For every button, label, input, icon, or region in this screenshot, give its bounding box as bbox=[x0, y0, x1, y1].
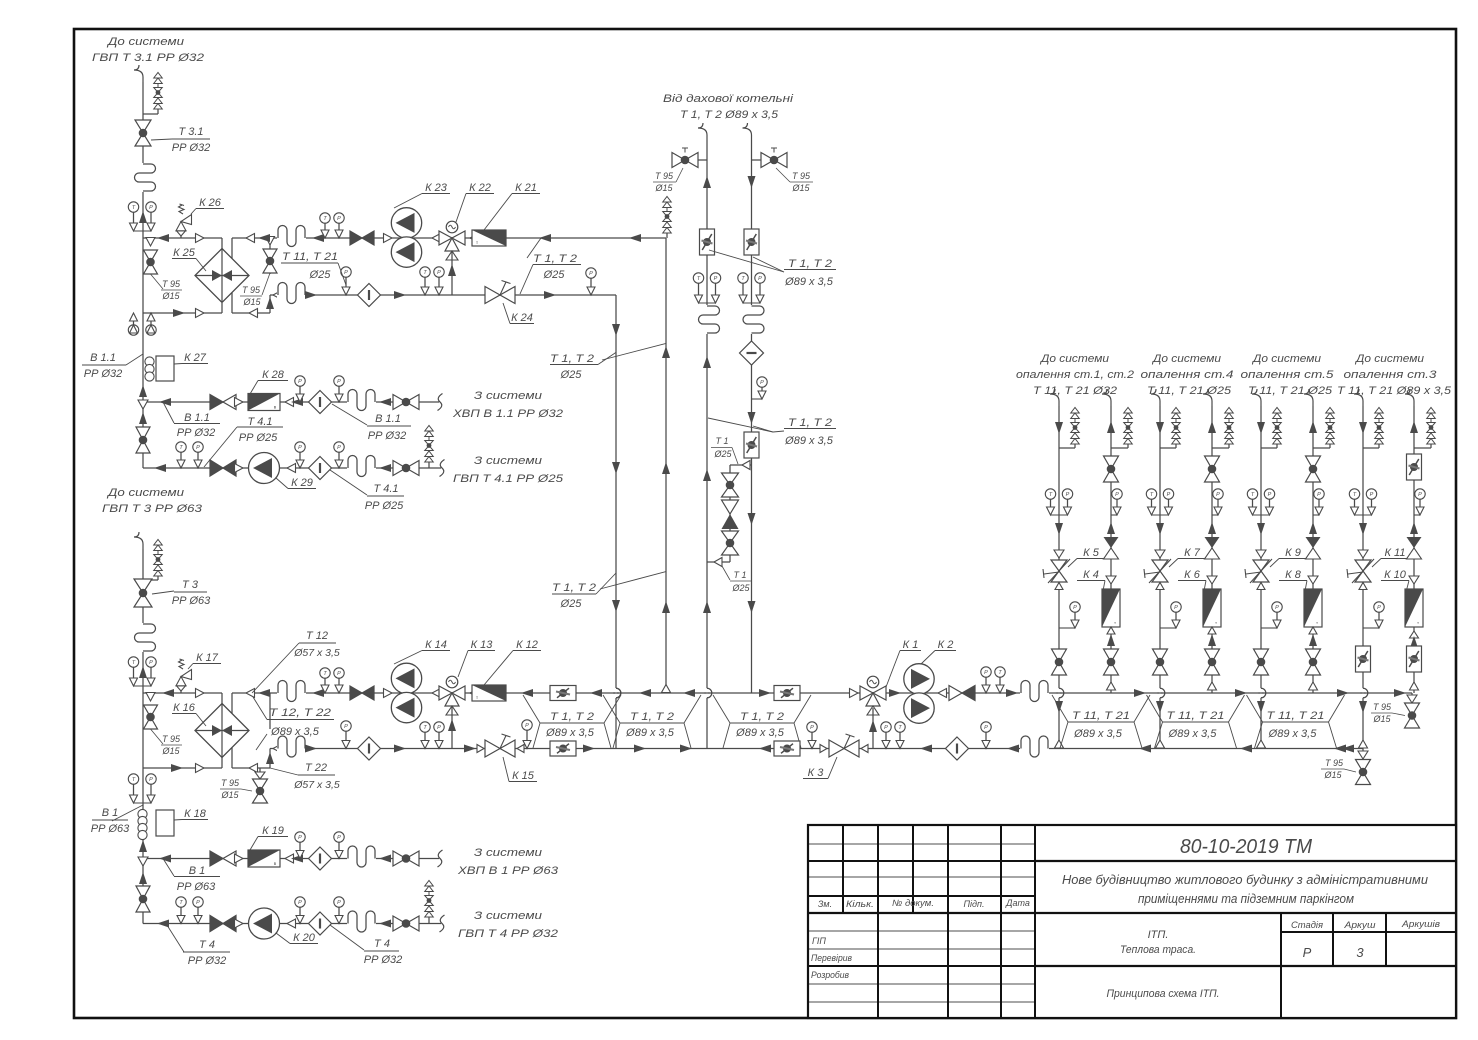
svg-text:Розробив: Розробив bbox=[811, 970, 849, 980]
svg-text:РР Ø32: РР Ø32 bbox=[172, 142, 211, 154]
svg-text:Кільк.: Кільк. bbox=[846, 899, 874, 909]
svg-text:Аркушів: Аркушів bbox=[1401, 919, 1440, 930]
svg-text:Т 11, Т 21 Ø89 х 3,5: Т 11, Т 21 Ø89 х 3,5 bbox=[1337, 385, 1452, 397]
svg-text:Р: Р bbox=[758, 276, 762, 282]
svg-text:Ø25: Ø25 bbox=[713, 449, 732, 459]
svg-text:Ø15: Ø15 bbox=[220, 790, 239, 800]
svg-text:Р: Р bbox=[984, 725, 988, 731]
svg-text:Т 95: Т 95 bbox=[221, 778, 240, 788]
svg-text:Р: Р bbox=[196, 445, 200, 451]
svg-text:Т 4.1: Т 4.1 bbox=[373, 483, 398, 495]
svg-text:В 1: В 1 bbox=[102, 807, 119, 819]
svg-text:В 1.1: В 1.1 bbox=[184, 412, 210, 424]
svg-text:ГВП Т 3 РР Ø63: ГВП Т 3 РР Ø63 bbox=[102, 503, 203, 515]
svg-text:Р: Р bbox=[810, 725, 814, 731]
svg-text:Ø15: Ø15 bbox=[1372, 714, 1391, 724]
svg-text:Р: Р bbox=[1370, 492, 1374, 498]
svg-text:Р: Р bbox=[589, 271, 593, 277]
svg-text:Ø89 х 3,5: Ø89 х 3,5 bbox=[1268, 728, 1318, 740]
svg-text:ГВП Т 3.1 РР Ø32: ГВП Т 3.1 РР Ø32 bbox=[92, 52, 204, 64]
svg-text:К 14: К 14 bbox=[425, 639, 447, 651]
svg-text:РР Ø32: РР Ø32 bbox=[364, 954, 403, 966]
svg-text:РР Ø32: РР Ø32 bbox=[188, 955, 227, 967]
svg-text:Ø15: Ø15 bbox=[161, 746, 180, 756]
svg-text:Т 11, Т 21 Ø25: Т 11, Т 21 Ø25 bbox=[1147, 385, 1232, 397]
svg-text:Т 1, Т 2: Т 1, Т 2 bbox=[552, 582, 596, 594]
svg-text:Р: Р bbox=[298, 445, 302, 451]
svg-text:Р: Р bbox=[337, 671, 341, 677]
svg-text:Ø89 х 3,5: Ø89 х 3,5 bbox=[1168, 728, 1218, 740]
svg-text:Т 95: Т 95 bbox=[1373, 702, 1392, 712]
svg-text:К 29: К 29 bbox=[291, 477, 313, 489]
svg-text:Ø25: Ø25 bbox=[560, 598, 583, 610]
svg-text:ІТП.: ІТП. bbox=[1148, 929, 1169, 941]
svg-text:Т 95: Т 95 bbox=[242, 285, 261, 295]
svg-text:В 1.1: В 1.1 bbox=[375, 413, 401, 425]
svg-text:К 18: К 18 bbox=[184, 808, 207, 820]
svg-text:Ø25: Ø25 bbox=[560, 369, 583, 381]
svg-text:Т 3.1: Т 3.1 bbox=[178, 126, 203, 138]
svg-text:РР Ø63: РР Ø63 bbox=[91, 823, 130, 835]
svg-text:№ докум.: № докум. bbox=[892, 898, 934, 908]
svg-text:Ø89 х 3,5: Ø89 х 3,5 bbox=[735, 727, 785, 739]
svg-text:Перевірив: Перевірив bbox=[811, 953, 852, 963]
svg-text:Р: Р bbox=[337, 216, 341, 222]
svg-text:РР Ø32: РР Ø32 bbox=[84, 368, 123, 380]
svg-text:К 27: К 27 bbox=[184, 352, 207, 364]
svg-text:Т 1, Т 2: Т 1, Т 2 bbox=[550, 711, 594, 723]
svg-text:К 8: К 8 bbox=[1285, 569, 1302, 581]
svg-text:Зм.: Зм. bbox=[818, 899, 832, 909]
svg-text:ХВП В 1 РР Ø63: ХВП В 1 РР Ø63 bbox=[457, 865, 559, 877]
svg-text:К 25: К 25 bbox=[173, 247, 196, 259]
svg-text:К 4: К 4 bbox=[1083, 569, 1099, 581]
svg-text:Ø15: Ø15 bbox=[791, 183, 810, 193]
svg-text:т: т bbox=[1215, 620, 1217, 625]
svg-text:К 26: К 26 bbox=[199, 197, 222, 209]
svg-text:Ø15: Ø15 bbox=[654, 183, 673, 193]
svg-text:РР Ø63: РР Ø63 bbox=[177, 881, 216, 893]
svg-text:РР Ø32: РР Ø32 bbox=[368, 430, 407, 442]
svg-text:Р: Р bbox=[1167, 492, 1171, 498]
svg-text:Ø25: Ø25 bbox=[543, 269, 566, 281]
svg-text:До системи: До системи bbox=[106, 487, 184, 499]
svg-text:РР Ø25: РР Ø25 bbox=[239, 432, 278, 444]
svg-text:Р: Р bbox=[884, 725, 888, 731]
svg-text:К 2: К 2 bbox=[938, 639, 954, 651]
svg-text:До системи: До системи bbox=[1039, 353, 1109, 365]
svg-text:Р: Р bbox=[1268, 492, 1272, 498]
svg-text:Т 4: Т 4 bbox=[374, 938, 390, 950]
svg-text:З системи: З системи bbox=[474, 910, 542, 922]
svg-text:приміщеннями та підземним парк: приміщеннями та підземним паркінгом bbox=[1138, 891, 1354, 906]
svg-text:Т 95: Т 95 bbox=[792, 171, 811, 181]
svg-text:опалення ст.5: опалення ст.5 bbox=[1241, 369, 1335, 381]
svg-text:Р: Р bbox=[1418, 492, 1422, 498]
svg-text:До системи: До системи bbox=[1151, 353, 1221, 365]
svg-text:Т 11, Т 21: Т 11, Т 21 bbox=[1267, 710, 1325, 722]
svg-text:Підп.: Підп. bbox=[964, 899, 985, 909]
svg-text:Р: Р bbox=[437, 725, 441, 731]
svg-text:Т 11, Т 21 Ø32: Т 11, Т 21 Ø32 bbox=[1033, 385, 1117, 397]
svg-text:Т 1, Т 2: Т 1, Т 2 bbox=[788, 258, 832, 270]
svg-text:Від дахової котельні: Від дахової котельні bbox=[663, 93, 794, 105]
svg-text:К 13: К 13 bbox=[471, 639, 494, 651]
svg-text:Р: Р bbox=[149, 205, 153, 211]
svg-text:т: т bbox=[476, 695, 478, 700]
svg-text:ГВП Т 4 РР Ø32: ГВП Т 4 РР Ø32 bbox=[458, 928, 558, 940]
svg-text:Т 1, Т 2 Ø89 х 3,5: Т 1, Т 2 Ø89 х 3,5 bbox=[680, 109, 779, 121]
svg-text:Принципова схема ІТП.: Принципова схема ІТП. bbox=[1107, 988, 1220, 1000]
svg-text:К 17: К 17 bbox=[196, 652, 219, 664]
svg-text:К 21: К 21 bbox=[515, 182, 537, 194]
svg-text:Нове будівництво житлового буд: Нове будівництво житлового будинку з адм… bbox=[1062, 872, 1428, 887]
svg-text:Т 95: Т 95 bbox=[655, 171, 674, 181]
svg-text:Т 1, Т 2: Т 1, Т 2 bbox=[788, 417, 832, 429]
svg-text:З системи: З системи bbox=[474, 847, 542, 859]
svg-text:Т 95: Т 95 bbox=[162, 279, 181, 289]
svg-text:Ø89 х 3,5: Ø89 х 3,5 bbox=[625, 727, 675, 739]
svg-text:Р: Р bbox=[1303, 945, 1312, 960]
svg-text:К 10: К 10 bbox=[1384, 569, 1407, 581]
svg-text:Р: Р bbox=[1073, 605, 1077, 611]
svg-text:Дата: Дата bbox=[1005, 898, 1030, 908]
svg-text:Аркуш: Аркуш bbox=[1343, 920, 1375, 931]
svg-text:К 6: К 6 bbox=[1184, 569, 1201, 581]
svg-text:Ø15: Ø15 bbox=[1323, 770, 1342, 780]
svg-text:К 22: К 22 bbox=[469, 182, 491, 194]
svg-text:Р: Р bbox=[298, 900, 302, 906]
svg-text:Р: Р bbox=[337, 835, 341, 841]
svg-text:К 1: К 1 bbox=[903, 639, 919, 651]
svg-text:Р: Р bbox=[1066, 492, 1070, 498]
svg-text:Р: Р bbox=[149, 660, 153, 666]
svg-text:До системи: До системи bbox=[1251, 353, 1321, 365]
svg-text:Т 1, Т 2: Т 1, Т 2 bbox=[533, 253, 577, 265]
svg-text:К 12: К 12 bbox=[516, 639, 538, 651]
svg-text:РР Ø25: РР Ø25 bbox=[365, 500, 404, 512]
svg-text:Стадія: Стадія bbox=[1291, 920, 1323, 931]
svg-text:ГВП Т 4.1 РР Ø25: ГВП Т 4.1 РР Ø25 bbox=[453, 473, 564, 485]
svg-text:Ø57 х 3,5: Ø57 х 3,5 bbox=[293, 647, 340, 659]
svg-text:Т 1, Т 2: Т 1, Т 2 bbox=[740, 711, 784, 723]
svg-text:Т 1, Т 2: Т 1, Т 2 bbox=[630, 711, 674, 723]
svg-text:Р: Р bbox=[1216, 492, 1220, 498]
svg-text:Р: Р bbox=[149, 777, 153, 783]
svg-text:Р: Р bbox=[714, 276, 718, 282]
svg-text:Т 22: Т 22 bbox=[305, 762, 327, 774]
svg-text:ХВП В 1.1 РР Ø32: ХВП В 1.1 РР Ø32 bbox=[452, 408, 563, 420]
svg-text:т: т bbox=[1417, 620, 1419, 625]
svg-text:К 23: К 23 bbox=[425, 182, 448, 194]
svg-text:Р: Р bbox=[298, 379, 302, 385]
svg-text:Р: Р bbox=[1275, 605, 1279, 611]
svg-text:Р: Р bbox=[1174, 605, 1178, 611]
svg-text:Т 11, Т 21: Т 11, Т 21 bbox=[1072, 710, 1130, 722]
svg-text:К 5: К 5 bbox=[1083, 547, 1100, 559]
svg-text:Т 11, Т 21: Т 11, Т 21 bbox=[282, 251, 338, 263]
svg-text:Ø25: Ø25 bbox=[309, 269, 332, 281]
svg-text:З системи: З системи bbox=[474, 390, 542, 402]
svg-text:Т 11, Т 21 Ø25: Т 11, Т 21 Ø25 bbox=[1248, 385, 1333, 397]
svg-text:Ø89 х 3,5: Ø89 х 3,5 bbox=[784, 435, 834, 447]
svg-text:Р: Р bbox=[1115, 492, 1119, 498]
svg-text:В 1: В 1 bbox=[189, 865, 206, 877]
svg-text:опалення ст.4: опалення ст.4 bbox=[1141, 369, 1234, 381]
svg-text:Теплова траса.: Теплова траса. bbox=[1120, 944, 1196, 956]
svg-text:Т 1: Т 1 bbox=[715, 436, 728, 446]
svg-text:Р: Р bbox=[337, 379, 341, 385]
svg-text:Р: Р bbox=[344, 270, 348, 276]
svg-text:80-10-2019 ТМ: 80-10-2019 ТМ bbox=[1180, 836, 1312, 858]
svg-text:ГІП: ГІП bbox=[812, 936, 826, 946]
svg-text:К 9: К 9 bbox=[1285, 547, 1301, 559]
svg-text:Р: Р bbox=[344, 724, 348, 730]
svg-text:Ø15: Ø15 bbox=[242, 297, 261, 307]
svg-text:опалення ст.3: опалення ст.3 bbox=[1344, 369, 1438, 381]
svg-text:К 28: К 28 bbox=[262, 369, 285, 381]
svg-text:Т 4: Т 4 bbox=[199, 939, 215, 951]
svg-text:т: т bbox=[476, 240, 478, 245]
svg-text:Ø89 х 3,5: Ø89 х 3,5 bbox=[1073, 728, 1123, 740]
svg-text:Ø15: Ø15 bbox=[161, 291, 180, 301]
svg-text:Ø25: Ø25 bbox=[731, 583, 750, 593]
svg-text:РР Ø32: РР Ø32 bbox=[177, 427, 216, 439]
svg-text:В 1.1: В 1.1 bbox=[90, 352, 116, 364]
svg-text:Т 1, Т 2: Т 1, Т 2 bbox=[550, 353, 594, 365]
svg-text:Т 1: Т 1 bbox=[733, 570, 746, 580]
svg-text:Т 12: Т 12 bbox=[306, 630, 328, 642]
svg-text:К 3: К 3 bbox=[808, 767, 825, 779]
svg-text:3: 3 bbox=[1356, 945, 1364, 960]
svg-text:Ø57 х 3,5: Ø57 х 3,5 bbox=[293, 779, 340, 791]
svg-text:Ø89 х 3,5: Ø89 х 3,5 bbox=[784, 276, 834, 288]
svg-text:Р: Р bbox=[760, 380, 764, 386]
svg-text:РР Ø63: РР Ø63 bbox=[172, 595, 211, 607]
svg-text:Р: Р bbox=[298, 835, 302, 841]
svg-text:З системи: З системи bbox=[474, 455, 542, 467]
svg-text:Р: Р bbox=[984, 670, 988, 676]
svg-text:К 19: К 19 bbox=[262, 825, 284, 837]
svg-text:К 16: К 16 bbox=[173, 702, 196, 714]
svg-text:Р: Р bbox=[1317, 492, 1321, 498]
svg-text:Р: Р bbox=[337, 445, 341, 451]
svg-text:Т 95: Т 95 bbox=[1325, 758, 1344, 768]
svg-text:Р: Р bbox=[525, 723, 529, 729]
svg-text:опалення ст.1, ст.2: опалення ст.1, ст.2 bbox=[1016, 369, 1134, 381]
svg-text:Р: Р bbox=[437, 270, 441, 276]
svg-text:Р: Р bbox=[196, 900, 200, 906]
svg-text:Т 95: Т 95 bbox=[162, 734, 181, 744]
svg-text:К 24: К 24 bbox=[511, 312, 533, 324]
svg-text:Р: Р bbox=[337, 900, 341, 906]
svg-text:Т 4.1: Т 4.1 bbox=[247, 416, 272, 428]
svg-text:До системи: До системи bbox=[106, 36, 184, 48]
svg-text:Р: Р bbox=[1377, 605, 1381, 611]
svg-text:К 11: К 11 bbox=[1385, 547, 1406, 559]
svg-text:До системи: До системи bbox=[1354, 353, 1424, 365]
svg-text:т: т bbox=[1114, 620, 1116, 625]
svg-text:К 20: К 20 bbox=[293, 932, 316, 944]
svg-text:Т 12, Т 22: Т 12, Т 22 bbox=[269, 707, 331, 719]
svg-text:К 15: К 15 bbox=[512, 770, 535, 782]
svg-text:т: т bbox=[1316, 620, 1318, 625]
svg-text:К 7: К 7 bbox=[1184, 547, 1201, 559]
svg-text:Т 11, Т 21: Т 11, Т 21 bbox=[1167, 710, 1225, 722]
svg-text:Т 3: Т 3 bbox=[182, 579, 199, 591]
svg-text:Ø89 х 3,5: Ø89 х 3,5 bbox=[545, 727, 595, 739]
